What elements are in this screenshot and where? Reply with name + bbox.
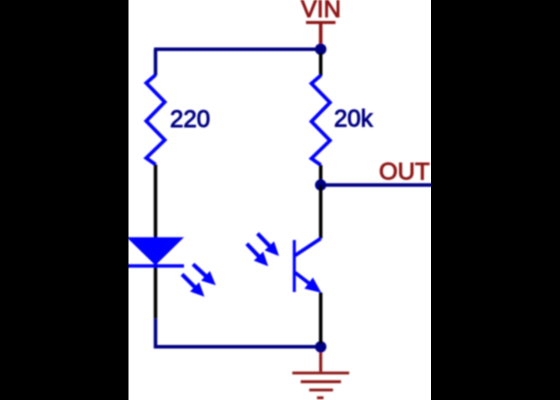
resistor R1 220 zigzag	[146, 75, 165, 165]
wire top horizontal	[154, 47, 321, 51]
phototransistor Q1 base bar	[293, 240, 296, 292]
node OUT junction	[315, 179, 326, 190]
ground symbol	[292, 347, 349, 398]
node ground junction	[315, 341, 326, 352]
light arrow 2 into Q1	[247, 244, 268, 266]
wire right rail to OUT node black	[319, 165, 323, 185]
wire left rail upper	[154, 49, 158, 75]
VIN power symbol	[306, 23, 336, 47]
resistor R2 20k zigzag	[311, 76, 330, 166]
svg-text:220: 220	[170, 106, 210, 133]
wire left rail middle black	[154, 165, 158, 240]
wire emitter black	[319, 293, 323, 345]
svg-text:VIN: VIN	[301, 0, 341, 23]
right letterbox bar	[431, 0, 560, 400]
LED emission arrow 1	[193, 264, 216, 285]
LED emission arrow 2	[182, 274, 205, 297]
LED D1 cathode bar	[127, 264, 184, 267]
left letterbox bar	[0, 0, 129, 400]
wire right rail upper black	[319, 53, 323, 76]
wire left rail lower navy with bottom horizontal	[156, 319, 321, 347]
svg-text:OUT: OUT	[379, 158, 430, 185]
svg-text:20k: 20k	[334, 105, 374, 132]
wire OUT horizontal	[321, 183, 432, 187]
wire collector black	[319, 185, 323, 239]
LED D1 anode triangle	[127, 237, 184, 265]
wire left rail through LED black	[154, 239, 158, 319]
light arrow 1 into Q1	[258, 234, 280, 257]
phototransistor Q1 emitter diagonal with arrow	[295, 273, 321, 293]
phototransistor Q1 collector diagonal	[295, 239, 321, 256]
node VIN junction	[315, 44, 326, 55]
